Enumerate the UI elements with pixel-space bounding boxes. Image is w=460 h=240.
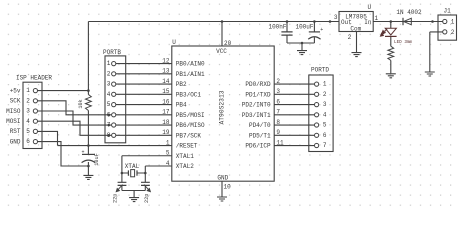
svg-text:8: 8 bbox=[107, 132, 111, 139]
svg-text:VCC: VCC bbox=[216, 48, 227, 55]
svg-text:1: 1 bbox=[26, 87, 30, 94]
svg-text:22p: 22p bbox=[144, 194, 150, 203]
svg-text:4: 4 bbox=[323, 111, 327, 118]
svg-text:10k: 10k bbox=[78, 99, 84, 108]
svg-text:PD2/INT0: PD2/INT0 bbox=[242, 102, 271, 109]
svg-text:AT90S2313: AT90S2313 bbox=[218, 90, 225, 124]
svg-text:PORTB: PORTB bbox=[103, 49, 121, 56]
svg-text:SCK: SCK bbox=[10, 98, 21, 105]
svg-text:3: 3 bbox=[323, 101, 327, 108]
svg-text:4: 4 bbox=[26, 118, 30, 125]
svg-text:PD4/T0: PD4/T0 bbox=[249, 122, 271, 129]
svg-text:14: 14 bbox=[162, 78, 170, 85]
svg-text:5: 5 bbox=[323, 122, 327, 129]
svg-text:PORTD: PORTD bbox=[311, 66, 329, 73]
svg-text:8: 8 bbox=[276, 119, 280, 126]
svg-text:19: 19 bbox=[162, 129, 170, 136]
svg-text:PB6/MISO: PB6/MISO bbox=[176, 122, 205, 129]
svg-text:5: 5 bbox=[166, 150, 170, 157]
svg-text:3: 3 bbox=[26, 108, 30, 115]
svg-text:1N 4002: 1N 4002 bbox=[396, 9, 422, 16]
svg-text:PD1/TXD: PD1/TXD bbox=[245, 91, 271, 98]
svg-text:12: 12 bbox=[162, 57, 170, 64]
svg-text:/RESET: /RESET bbox=[176, 143, 198, 150]
svg-text:2: 2 bbox=[451, 29, 455, 36]
svg-text:15: 15 bbox=[162, 88, 170, 95]
svg-text:3: 3 bbox=[334, 14, 338, 21]
svg-text:LED 3mm: LED 3mm bbox=[394, 40, 412, 45]
svg-text:U: U bbox=[368, 4, 372, 11]
svg-text:7: 7 bbox=[276, 109, 280, 116]
svg-text:13: 13 bbox=[162, 68, 170, 75]
svg-text:20: 20 bbox=[224, 40, 232, 47]
svg-text:5: 5 bbox=[26, 128, 30, 135]
svg-text:GND: GND bbox=[217, 175, 228, 182]
svg-text:1: 1 bbox=[323, 81, 327, 88]
svg-text:16: 16 bbox=[162, 98, 170, 105]
svg-text:100uF: 100uF bbox=[295, 24, 313, 31]
svg-text:GND: GND bbox=[10, 138, 21, 145]
svg-text:2: 2 bbox=[26, 97, 30, 104]
svg-text:6: 6 bbox=[107, 111, 111, 118]
svg-text:PB3/OC1: PB3/OC1 bbox=[176, 91, 202, 98]
svg-text:10uF: 10uF bbox=[94, 153, 100, 165]
svg-text:XTAL2: XTAL2 bbox=[176, 163, 194, 170]
svg-text:J1: J1 bbox=[444, 8, 452, 15]
svg-text:6: 6 bbox=[26, 138, 30, 145]
svg-text:100nF: 100nF bbox=[268, 24, 286, 31]
svg-text:5: 5 bbox=[107, 101, 111, 108]
svg-text:PB1/AIN1: PB1/AIN1 bbox=[176, 71, 205, 78]
svg-text:Com: Com bbox=[350, 26, 361, 33]
svg-text:6: 6 bbox=[276, 98, 280, 105]
svg-text:+: + bbox=[320, 27, 323, 33]
svg-text:3: 3 bbox=[276, 88, 280, 95]
svg-text:MISO: MISO bbox=[6, 108, 21, 115]
svg-text:PB5/MOSI: PB5/MOSI bbox=[176, 112, 205, 119]
svg-text:1: 1 bbox=[166, 139, 170, 146]
svg-text:7: 7 bbox=[107, 122, 111, 129]
svg-text:U: U bbox=[172, 39, 176, 46]
svg-text:4: 4 bbox=[107, 91, 111, 98]
svg-text:PB0/AIN0: PB0/AIN0 bbox=[176, 61, 205, 68]
svg-text:PB4: PB4 bbox=[176, 102, 187, 109]
svg-text:3: 3 bbox=[107, 81, 111, 88]
svg-text:PB7/SCK: PB7/SCK bbox=[176, 132, 202, 139]
svg-text:9: 9 bbox=[276, 129, 280, 136]
svg-text:1: 1 bbox=[107, 60, 111, 67]
svg-text:22p: 22p bbox=[113, 194, 119, 203]
svg-text:2: 2 bbox=[107, 70, 111, 77]
svg-text:2: 2 bbox=[323, 91, 327, 98]
svg-text:In: In bbox=[364, 19, 372, 26]
svg-text:18: 18 bbox=[162, 119, 170, 126]
svg-text:XTAL: XTAL bbox=[125, 163, 140, 170]
svg-text:PD5/T1: PD5/T1 bbox=[249, 132, 271, 139]
svg-text:XTAL1: XTAL1 bbox=[176, 153, 194, 160]
svg-text:+: + bbox=[81, 150, 84, 156]
svg-text:+5v: +5v bbox=[10, 87, 21, 94]
svg-text:11: 11 bbox=[276, 139, 284, 146]
svg-text:ISP HEADER: ISP HEADER bbox=[16, 75, 52, 82]
svg-text:RST: RST bbox=[10, 128, 21, 135]
svg-text:10: 10 bbox=[224, 183, 232, 190]
svg-text:4: 4 bbox=[166, 160, 170, 167]
svg-text:PD0/RXD: PD0/RXD bbox=[245, 81, 271, 88]
svg-text:1: 1 bbox=[451, 19, 455, 26]
svg-text:17: 17 bbox=[162, 109, 170, 116]
svg-text:2: 2 bbox=[348, 34, 352, 41]
svg-text:PB2: PB2 bbox=[176, 81, 187, 88]
svg-text:1: 1 bbox=[375, 15, 379, 22]
svg-text:7: 7 bbox=[323, 142, 327, 149]
svg-text:PD6/ICP: PD6/ICP bbox=[245, 143, 271, 150]
svg-text:MOSI: MOSI bbox=[6, 118, 20, 125]
svg-text:PD3/INT1: PD3/INT1 bbox=[242, 112, 271, 119]
svg-text:2: 2 bbox=[276, 78, 280, 85]
svg-text:6: 6 bbox=[323, 132, 327, 139]
